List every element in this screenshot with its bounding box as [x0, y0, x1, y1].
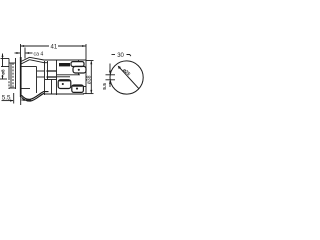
lens dimension top arrow — [2, 54, 4, 57]
extension line right — [85, 44, 87, 94]
front view circle — [110, 61, 143, 94]
svg-text:ca 4: ca 4 — [34, 51, 44, 57]
flange front face — [20, 57, 22, 97]
middle terminal hole — [62, 83, 64, 85]
dimension 41 left arrow — [21, 45, 25, 47]
lens dim tick bottom — [0, 78, 7, 80]
body right edge — [78, 61, 80, 63]
diagonal arrow — [118, 66, 121, 70]
spring clip wave upper — [22, 92, 49, 100]
socket horizontals — [37, 70, 45, 72]
lens barrel bottom cap — [9, 87, 16, 89]
socket vertical 2 — [56, 61, 58, 96]
svg-text:ø38: ø38 — [87, 75, 93, 84]
dimension 41 right arrow — [82, 45, 86, 47]
dim o38 line lower with arrow — [90, 90, 92, 93]
lens barrel rear — [15, 58, 17, 89]
body top edge sloping — [30, 57, 87, 60]
lens dim tick top — [1, 58, 10, 60]
lower terminal lug outline — [72, 85, 84, 92]
dimension ca4 right arrow line — [26, 52, 33, 54]
extension line left (flange face) — [20, 44, 22, 57]
body bottom line — [45, 93, 85, 95]
dim o38 tick bottom — [83, 93, 94, 95]
interior lower horizontals — [45, 79, 57, 81]
lens barrel front face — [8, 59, 10, 79]
upper terminal thick bar — [59, 63, 70, 66]
dim 5.5 extension line — [13, 93, 15, 104]
lens dimension far-left vertical line — [2, 54, 4, 68]
upper terminal hole — [78, 69, 80, 71]
circle top label dashes — [112, 54, 116, 56]
dim o38 tick top — [86, 60, 94, 62]
circle left dim tick 2 — [106, 79, 116, 81]
lens barrel top cap — [9, 62, 16, 64]
dimension 41 line — [21, 45, 50, 47]
diagonal diameter line — [119, 67, 139, 89]
dimension ca4 left arrow line — [15, 52, 21, 54]
socket block left edge — [47, 61, 49, 80]
extension line ca4 — [24, 48, 26, 59]
body interior upper horizontal — [22, 66, 37, 68]
spring clip wave lower — [22, 93, 45, 101]
svg-text:5.5: 5.5 — [2, 94, 11, 101]
lens dimension bottom arrow — [2, 76, 4, 79]
body lower-right wall — [51, 80, 53, 95]
circle left dim upper line — [109, 64, 111, 73]
dim o38 line upper with arrow — [90, 61, 92, 93]
svg-text:41: 41 — [51, 44, 58, 50]
flange cone top slants — [21, 57, 30, 61]
lower terminal hole — [76, 88, 78, 90]
svg-text:5.5: 5.5 — [102, 83, 108, 90]
svg-text:30: 30 — [117, 53, 124, 59]
socket vertical — [44, 61, 46, 95]
circle left dim tick 1 — [106, 74, 116, 76]
lens barrel ridge — [10, 63, 12, 88]
svg-text:ø8: ø8 — [1, 69, 6, 75]
dim 5.5 right line — [22, 99, 32, 101]
dim 5.5 left line under text — [2, 100, 14, 102]
upper terminal lug outline — [71, 62, 84, 67]
middle terminal lug outline — [58, 80, 71, 89]
interior mid horizontal right — [57, 74, 80, 76]
interior vertical wall — [36, 67, 38, 94]
lens barrel inner dashed — [12, 63, 14, 88]
circle left dim lower line — [109, 81, 111, 87]
lower terminal tick — [84, 86, 87, 88]
